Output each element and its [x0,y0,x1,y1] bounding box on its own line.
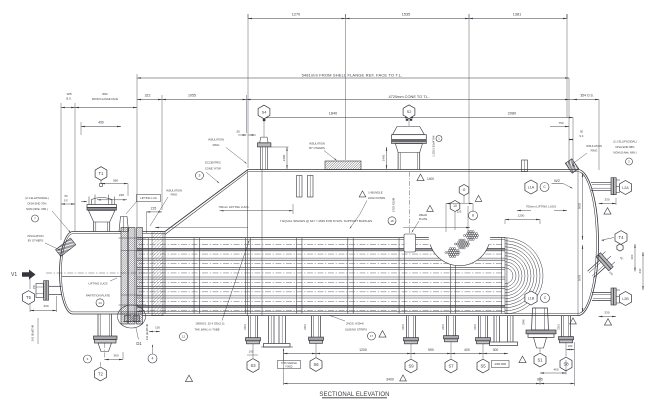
support baffles [142,238,144,314]
svg-text:2940: 2940 [523,319,526,325]
svg-text:S7: S7 [448,364,454,369]
extension line x248 [247,19,249,169]
tube field detail bubble [429,204,491,266]
svg-text:360: 360 [113,354,118,358]
svg-text:241 (Ex)6THK: 241 (Ex)6THK [31,325,35,342]
svg-text:1270: 1270 [292,13,300,17]
arrow at T1 flange [84,201,87,202]
svg-text:750: 750 [558,121,563,125]
right head vertical dim lower [582,245,584,312]
svg-text:125: 125 [457,210,462,214]
svg-text:ECCENTRIC: ECCENTRIC [205,161,221,165]
S2 centerline to wear plate [409,172,411,234]
baffle spacing line [155,227,248,229]
svg-text:400: 400 [553,368,558,372]
svg-text:DISH END 98%: DISH END 98% [616,145,636,149]
insulation hatch on left head [44,223,88,272]
svg-text:241 (Ex)6THK: 241 (Ex)6THK [145,324,149,341]
svg-text:L2B: L2B [622,297,629,301]
balloon L1A [525,180,537,194]
extension line x469 [468,19,470,204]
balloon S4 [258,105,270,119]
svg-text:1535: 1535 [402,13,410,17]
svg-text:(2:1 ELLIPSOIDAL): (2:1 ELLIPSOIDAL) [613,140,637,144]
drain D1 [125,316,132,322]
balloon L1B [525,291,537,305]
svg-text:DISH END 70%: DISH END 70% [28,202,48,206]
svg-text:2301: 2301 [474,324,477,330]
svg-text:100: 100 [249,350,254,354]
svg-text:100: 100 [568,344,573,348]
svg-text:3400: 3400 [386,378,394,382]
svg-text:100: 100 [155,326,160,330]
svg-text:10M6 34B6: 10M6 34B6 [494,364,506,366]
svg-text:220: 220 [119,193,124,197]
svg-text:CONE 'VITW': CONE 'VITW' [205,167,222,171]
svg-text:L1A: L1A [528,185,535,189]
nozzle S6 [311,316,313,338]
svg-text:SLIDING STRIPS: SLIDING STRIPS [345,328,367,332]
nozzle S1 [532,308,549,330]
svg-text:6725 KG/M: 6725 KG/M [392,197,396,212]
svg-text:700mm LIFTING LUGS: 700mm LIFTING LUGS [526,205,556,209]
bundle end tangent [504,237,506,314]
head weld triangle bottom [570,318,577,324]
svg-text:SECTIONAL ELEVATION: SECTIONAL ELEVATION [319,392,389,398]
svg-text:400: 400 [464,348,470,352]
svg-text:INSULATION: INSULATION [586,144,602,148]
svg-text:18: 18 [390,219,394,223]
svg-text:5829: 5829 [578,202,582,209]
svg-text:T2: T2 [98,372,104,377]
svg-text:S4: S4 [262,109,268,114]
nozzle T1 [93,222,95,232]
svg-text:L1B: L1B [528,296,535,300]
triangle bottom mid [185,375,192,382]
svg-text:2301: 2301 [244,324,247,330]
right head vertical dim [582,173,584,240]
balloon I0 [450,201,460,212]
wear plate [404,234,416,252]
lifting lug on channel [119,217,129,232]
svg-text:50: 50 [580,130,584,134]
nozzle L2A [591,181,611,183]
nozzle S2 [397,153,399,170]
svg-text:HOLD DOWN: HOLD DOWN [368,196,385,200]
svg-text:1840: 1840 [329,112,337,116]
svg-text:300: 300 [493,348,499,352]
svg-text:INSULATION: INSULATION [28,234,44,238]
svg-text:330: 330 [604,198,609,202]
svg-text:185: 185 [66,92,71,96]
right lifting lug on shell [522,160,528,172]
svg-text:S3: S3 [250,363,256,368]
dimension row 1270/1535/1381 [248,18,567,20]
triangle L2A [604,208,611,215]
svg-text:12: 12 [182,335,186,339]
nozzle L2B [592,292,611,294]
insulation ring on right head [555,151,590,180]
channel left ellipsoidal head [60,232,74,315]
saddle left [268,316,270,344]
svg-text:S5: S5 [480,364,486,369]
svg-text:2301: 2301 [558,324,561,330]
svg-text:RING: RING [591,149,598,153]
svg-text:RING: RING [213,143,220,147]
svg-text:4720mm CONE TO T.L.: 4720mm CONE TO T.L. [388,94,429,99]
tube bundle [137,237,505,239]
balloon T5 [23,291,35,305]
svg-text:10: 10 [453,204,457,208]
svg-text:2301: 2301 [402,324,405,330]
svg-text:230: 230 [43,304,48,308]
shell top wall [248,169,578,171]
svg-text:1400: 1400 [427,177,434,181]
svg-text:T4: T4 [619,235,625,240]
cone weld seam [247,170,249,316]
insulation ring band on small shell [68,232,248,316]
saddle right [493,316,495,342]
svg-text:INSULATION: INSULATION [166,189,182,193]
balloon I2 [459,185,469,196]
svg-text:INSULATION: INSULATION [309,142,325,146]
label boxed near S5 [492,361,510,368]
svg-text:NOM.(/9thk. MIN.): NOM.(/9thk. MIN.) [26,207,48,211]
balloon T1 [95,167,107,181]
svg-text:150: 150 [33,284,36,289]
flange bolt lines [119,237,147,239]
bottom dim row spacings [284,353,509,355]
svg-text:190NOS. 25.4 ODx2.11: 190NOS. 25.4 ODx2.11 [195,322,225,326]
svg-text:215: 215 [151,206,157,210]
svg-text:1200: 1200 [518,214,525,218]
svg-text:T5: T5 [26,295,32,300]
svg-text:FIXED: FIXED [285,366,292,369]
channel centerline [46,272,152,274]
triangle near S5 dim [519,356,526,363]
dimension 125 detail [446,203,473,205]
svg-text:U-BUNDLE: U-BUNDLE [368,191,382,195]
svg-text:1055: 1055 [188,94,196,98]
svg-text:B.S.: B.S. [66,97,72,101]
svg-text:NOM.(/14thk. MIN.): NOM.(/14thk. MIN.) [613,151,636,155]
svg-text:50: 50 [64,194,68,198]
svg-text:5678: 5678 [578,274,582,281]
nozzle S7 [446,316,448,336]
balloon T4 [615,231,627,245]
shell seam line [261,170,263,316]
svg-text:2301: 2301 [442,324,445,330]
shell girth flange hatched [137,228,143,325]
insulation support hatched [325,161,361,170]
svg-text:W2: W2 [554,179,560,183]
svg-text:V1: V1 [11,272,17,278]
dimension row 1840/2080 [264,117,574,119]
extension line x567 [566,14,568,118]
balloon 14 [96,299,104,307]
svg-text:8: 8 [472,214,474,218]
balloon S1 [534,353,546,367]
svg-text:700mm LIFTING LUGS: 700mm LIFTING LUGS [218,205,248,209]
triangle 1400 [417,174,424,181]
svg-text:BY OTHERS: BY OTHERS [28,239,44,243]
channel shell bottom wall [73,313,142,315]
svg-text:2460: 2460 [382,154,386,161]
nozzle T5 [49,285,62,287]
svg-text:2NOS. H39=K: 2NOS. H39=K [346,322,364,326]
svg-text:INSULATION: INSULATION [208,138,224,142]
svg-text:THK (MIN.) U-TUBE: THK (MIN.) U-TUBE [194,328,219,332]
svg-text:WEAR: WEAR [419,213,427,217]
svg-text:2301: 2301 [304,324,307,330]
nozzle S4 [259,147,261,170]
svg-text:S6: S6 [313,362,319,367]
svg-text:230: 230 [638,268,642,273]
extension line x345 [345,19,347,161]
channel girth flange hatched [121,228,128,325]
balloon T2 [95,367,107,381]
balloon L2B [619,292,631,306]
svg-text:I2: I2 [463,188,466,192]
svg-text:322: 322 [145,94,151,98]
svg-text:RING: RING [171,193,178,197]
label U-BUNDLE HOLD DOWN [359,191,366,197]
svg-text:354 O.S.: 354 O.S. [580,94,593,98]
dimension 5481mm shell flange to TL [137,77,569,79]
head tangent line [577,170,579,316]
partition plate [62,275,121,277]
svg-text:1.2D21 63x/4THK: 1.2D21 63x/4THK [432,135,436,157]
svg-text:PARTITION PLATE: PARTITION PLATE [86,294,110,298]
balloon 4 [148,354,157,363]
bottom long dim [284,383,575,385]
dimension 4720mm cone to TL row [137,99,599,101]
dimension 490 [81,126,121,128]
svg-text:BY OTHERS: BY OTHERS [309,146,325,150]
small shell segment [143,231,166,233]
dimension 2300 at S4 [286,147,288,169]
tube hole clusters [449,248,451,250]
svg-text:(2:1 ELLIPSOIDAL): (2:1 ELLIPSOIDAL) [25,196,49,200]
svg-text:LIFTING LUG: LIFTING LUG [140,196,157,200]
svg-text:S9: S9 [408,364,414,369]
svg-text:300: 300 [630,254,634,259]
svg-text:882: 882 [102,92,107,96]
svg-text:S2: S2 [407,109,412,114]
svg-text:5481mm FROM SHELL FLANGE REF.: 5481mm FROM SHELL FLANGE REF. FACE TO T.… [302,73,403,78]
svg-text:3: 3 [199,174,201,178]
svg-text:S.F.: S.F. [579,134,584,138]
eccentric cone [165,170,248,232]
triangle L2B [604,319,611,326]
label THIS SADDLE boxed [278,361,301,369]
nozzle T2 [97,314,99,336]
svg-text:35: 35 [236,130,240,134]
svg-text:490: 490 [98,121,104,125]
svg-text:LIFTING LUGS: LIFTING LUGS [88,282,107,286]
svg-text:T1: T1 [99,171,105,176]
svg-text:S.F.: S.F. [64,199,69,203]
detail ellipse D1 [118,305,146,328]
svg-text:1381: 1381 [513,13,521,17]
svg-text:S1: S1 [537,358,543,363]
U-bend return ends [505,268,513,284]
label LIFTING LUG boxed [137,195,161,202]
svg-text:14: 14 [98,301,102,305]
nozzle S9 [406,316,408,338]
balloon L2A [619,181,631,195]
nozzle S8 [561,316,563,337]
svg-text:PLATE: PLATE [419,217,428,221]
svg-text:4: 4 [152,357,154,361]
nozzle S5 [478,316,480,338]
channel shell top wall [73,231,121,233]
svg-text:S8: S8 [563,362,569,367]
svg-text:2300: 2300 [282,154,286,161]
svg-text:330: 330 [604,311,609,315]
balloon 8 [469,211,478,220]
svg-text:L2A: L2A [622,186,629,190]
dimension line T2 left [37,318,39,344]
svg-text:FROM FLANGE FACE: FROM FLANGE FACE [92,97,118,101]
triangle 3400 [400,375,407,381]
balloon 6 [84,355,92,363]
svg-text:D1: D1 [136,341,142,346]
nozzle T4 inclined [584,249,617,282]
dimension 2460 at S2 [386,147,388,169]
svg-text:17: 17 [370,334,374,338]
shell bottom wall [142,315,578,317]
balloon 3 eccentric cone [196,172,204,180]
svg-text:590: 590 [428,348,434,352]
triangle near I2 [475,195,482,201]
svg-text:380: 380 [113,179,118,183]
svg-text:1200: 1200 [359,348,367,352]
nozzle S3 [248,316,250,338]
svg-text:7 EQUAL SPACES @ 647 = 4529 FO: 7 EQUAL SPACES @ 647 = 4529 FOR 8 NOS. S… [280,219,372,223]
right ellipsoidal head [578,170,599,316]
left lifting lug on shell [297,176,303,198]
svg-text:2080: 2080 [508,112,516,116]
balloon S2 [403,105,415,119]
